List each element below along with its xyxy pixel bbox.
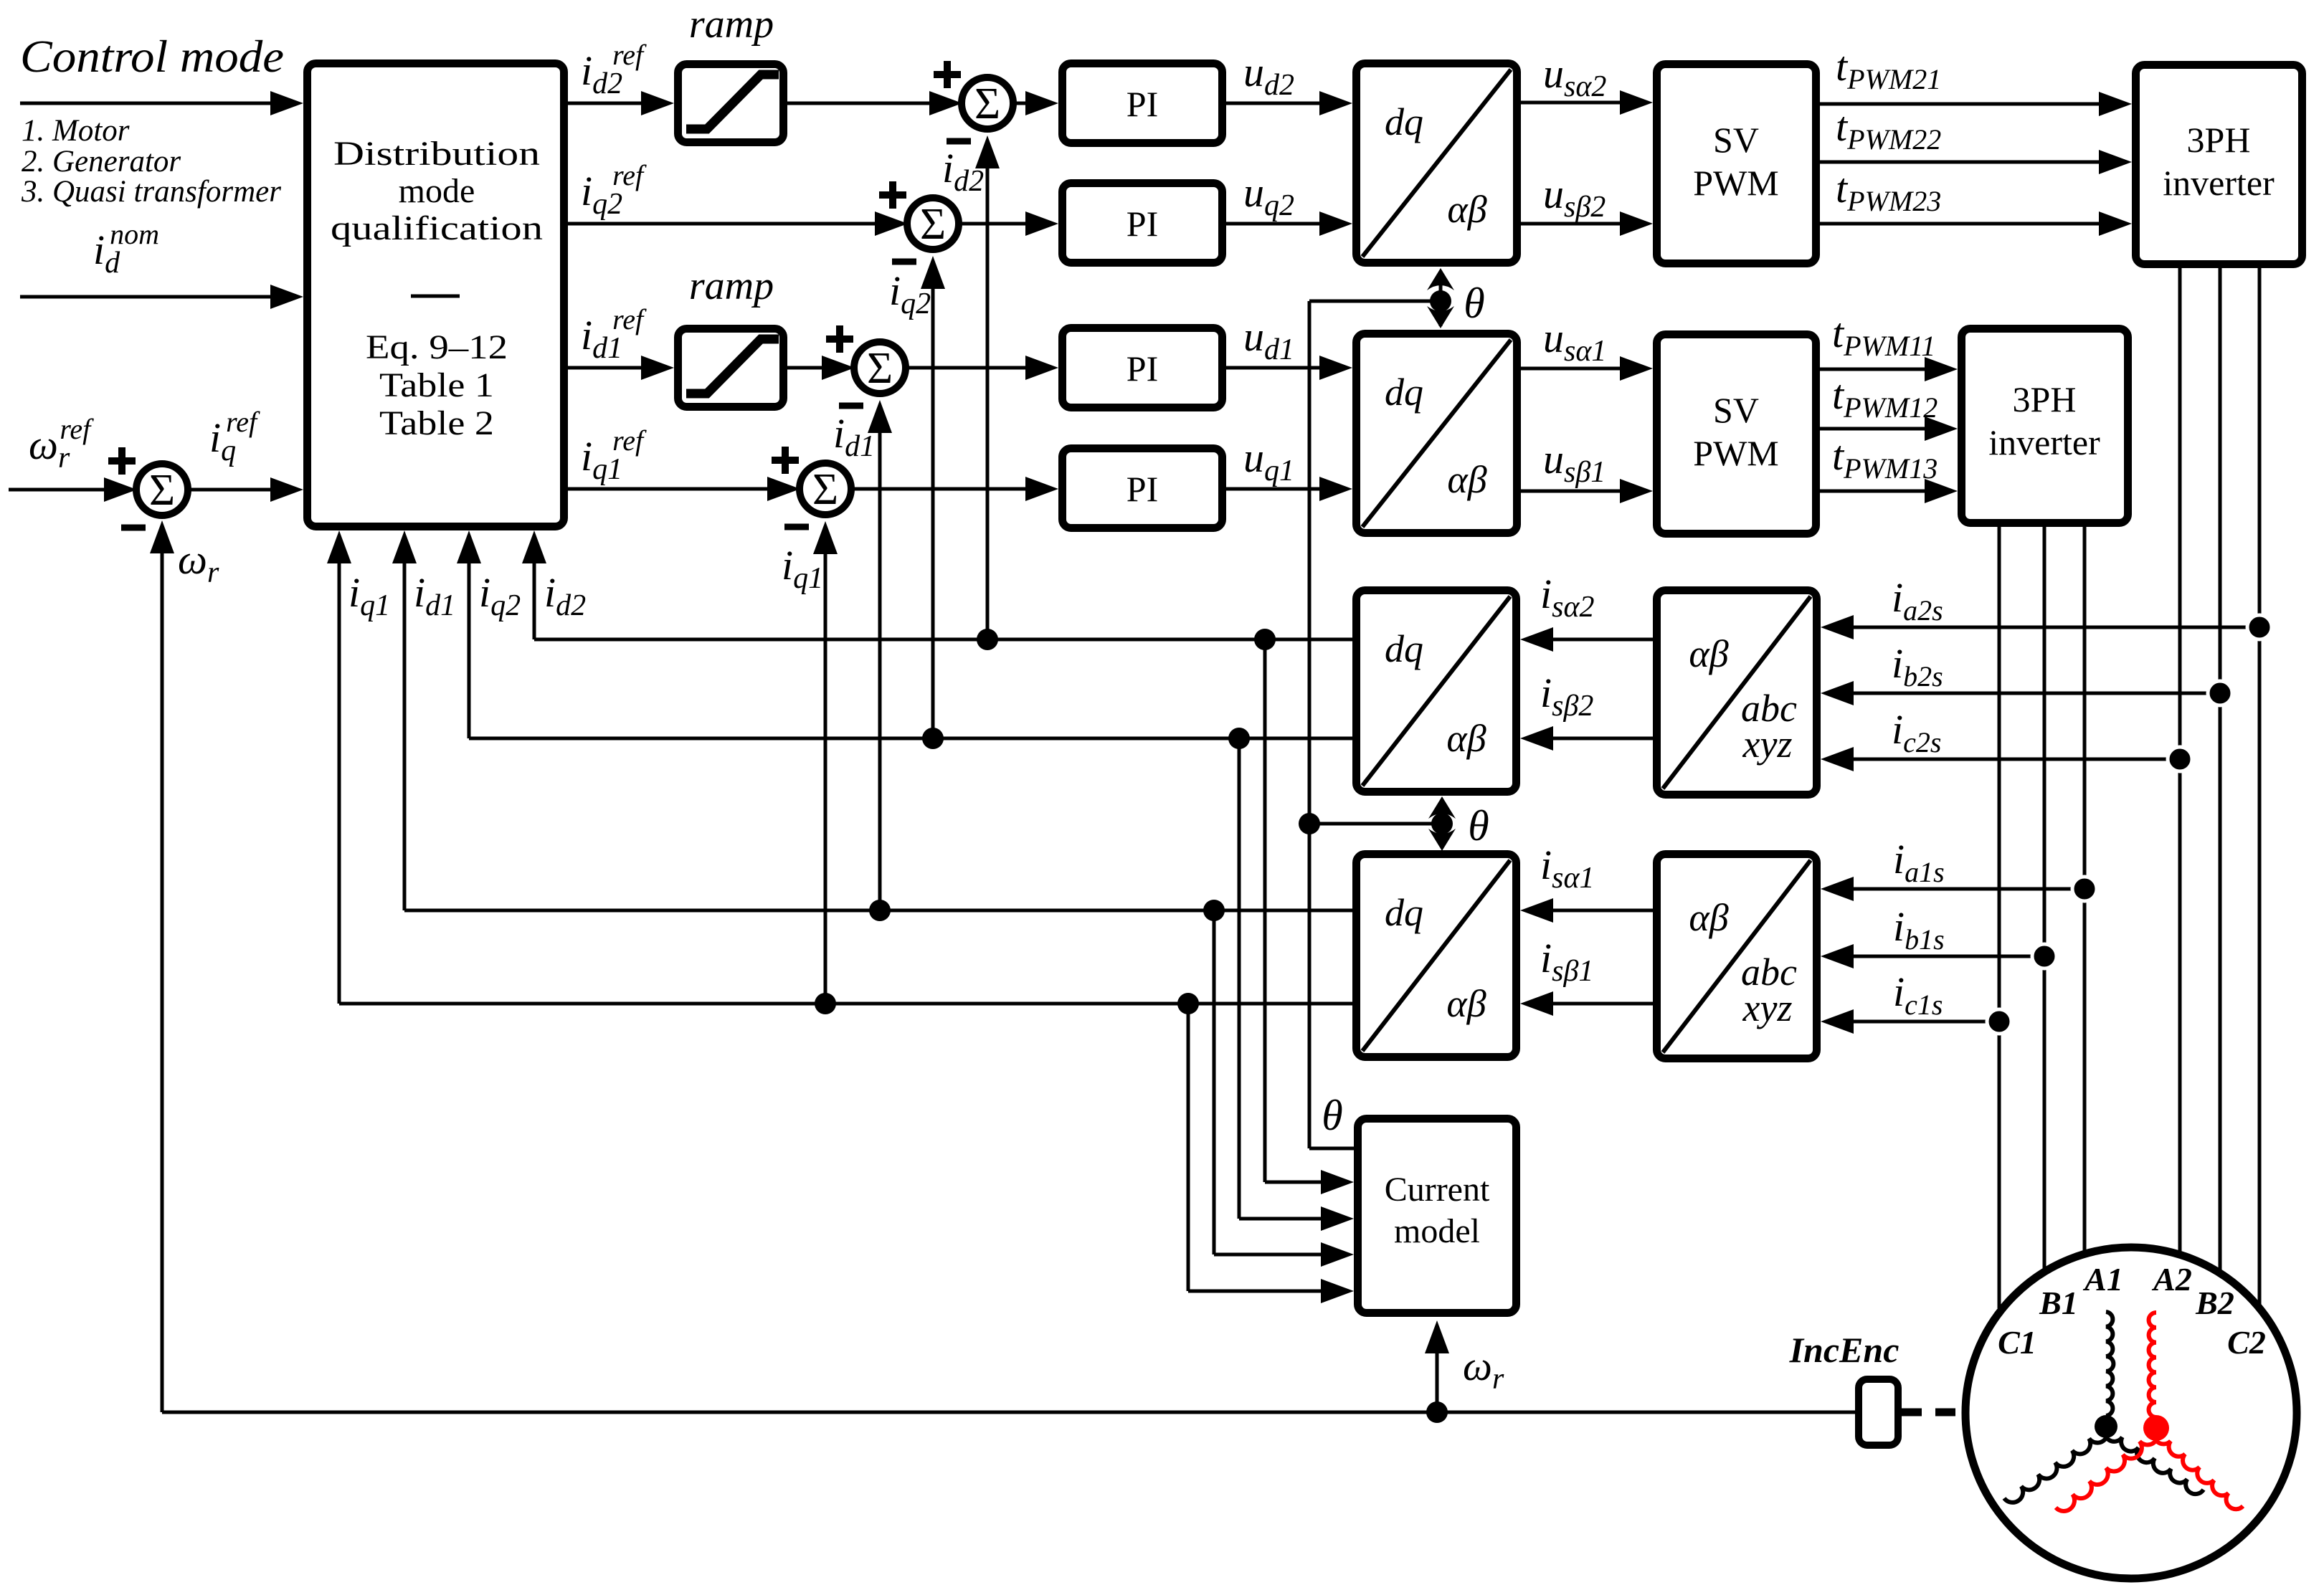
block PI controller 1 xyxy=(1063,64,1223,143)
summing junction d1 xyxy=(826,325,906,406)
wire id2 to sum d2 xyxy=(986,164,990,639)
svg-text:Distribution: Distribution xyxy=(333,135,540,173)
junction iq1 to current model xyxy=(1177,993,1199,1014)
svg-text:B2: B2 xyxy=(2195,1285,2234,1321)
junction theta trunk xyxy=(1299,813,1320,834)
svg-text:A1: A1 xyxy=(2082,1261,2123,1298)
wire ia1s tap xyxy=(1854,887,2085,891)
wire id1 up to distribution xyxy=(403,563,407,910)
svg-text:C1: C1 xyxy=(1998,1324,2036,1361)
wire usa2 xyxy=(1521,101,1624,105)
wire usb1 xyxy=(1521,490,1624,493)
wire ud2 xyxy=(1226,102,1324,105)
wire theta horizontal middle xyxy=(1309,822,1442,826)
motor circle xyxy=(1965,1247,2297,1579)
junction iq2 to sum xyxy=(922,728,944,749)
svg-text:3. Quasi transformer: 3. Quasi transformer xyxy=(21,175,281,209)
wire phase C2 line xyxy=(2258,268,2262,1308)
svg-text:dq: dq xyxy=(1385,891,1423,934)
wire tPWM21 xyxy=(1820,103,2103,106)
summing junction d2 xyxy=(934,61,1013,141)
svg-text:dq: dq xyxy=(1385,100,1423,143)
wire iq1 feedback xyxy=(339,1002,1352,1006)
wire iq1 up to distribution xyxy=(338,563,341,1004)
node theta between voltage transforms xyxy=(1439,276,1443,326)
svg-text:Σ: Σ xyxy=(867,344,893,393)
wire sum q2 to PI2 xyxy=(958,222,1030,226)
junction iq2 to current model xyxy=(1228,728,1250,749)
wire uq1 xyxy=(1226,487,1324,491)
svg-text:θ: θ xyxy=(1464,280,1484,327)
svg-text:PI: PI xyxy=(1127,348,1158,389)
wire sum q1 to PI4 xyxy=(850,487,1030,491)
wire theta horizontal top xyxy=(1309,300,1441,303)
wire id1 to current model xyxy=(1213,910,1216,1254)
block PI controller 2 xyxy=(1063,184,1223,263)
svg-text:C2: C2 xyxy=(2227,1324,2266,1361)
winding set 1 vertical coil xyxy=(2106,1312,2113,1416)
wire sum d1 to PI3 xyxy=(905,366,1030,370)
wire iq1 to current model xyxy=(1187,1004,1190,1291)
winding set 2 right coil xyxy=(2154,1428,2243,1509)
wire id1 to sum d1 xyxy=(878,429,882,910)
block dq to alpha-beta voltage 1 xyxy=(1357,334,1517,533)
wire tPWM22 xyxy=(1820,161,2103,164)
star point 1 xyxy=(2095,1415,2117,1438)
wire iq2 to sum q2 xyxy=(931,285,935,738)
wire uq2 xyxy=(1226,222,1324,226)
block alpha-beta to dq current 2 xyxy=(1357,591,1517,792)
block incremental encoder xyxy=(1859,1379,1898,1445)
svg-text:Σ: Σ xyxy=(149,466,175,515)
svg-text:3PH: 3PH xyxy=(2013,379,2077,419)
wire tPWM23 xyxy=(1820,222,2103,226)
wire iq2 up to distribution xyxy=(468,563,471,738)
block PI controller 3 xyxy=(1063,328,1223,408)
svg-text:SV: SV xyxy=(1713,390,1759,430)
svg-text:Σ: Σ xyxy=(920,200,946,249)
wire iq1ref to sum q1 xyxy=(568,487,772,491)
wire usa1 xyxy=(1521,367,1624,371)
block alpha-beta to dq current 1 xyxy=(1357,854,1517,1057)
svg-text:mode: mode xyxy=(399,172,475,210)
junction id1 to sum xyxy=(869,900,891,921)
svg-text:IncEnc: IncEnc xyxy=(1789,1330,1899,1370)
wire iq ref to distribution xyxy=(187,488,275,492)
junction ib2s xyxy=(2208,681,2232,705)
wire ic1s tap xyxy=(1854,1020,1999,1024)
block ramp limiter 2 xyxy=(678,329,784,407)
svg-text:xyz: xyz xyxy=(1742,986,1793,1029)
junction wr to current model xyxy=(1426,1401,1448,1423)
svg-text:αβ: αβ xyxy=(1446,717,1486,760)
block ramp limiter 1 xyxy=(678,65,784,143)
wire isa1 xyxy=(1549,909,1653,913)
node theta between current transforms xyxy=(1441,801,1444,847)
block Distribution mode qualification xyxy=(308,64,564,527)
svg-text:1. Motor: 1. Motor xyxy=(22,114,130,148)
summing junction q2 xyxy=(879,181,959,262)
wire wr vertical xyxy=(161,553,164,1412)
wire tPWM11 xyxy=(1820,368,1929,371)
svg-text:xyz: xyz xyxy=(1742,723,1793,766)
block Current model xyxy=(1358,1119,1517,1313)
wire id2 up to distribution xyxy=(533,563,536,639)
wire encoder dashed shaft xyxy=(1902,1409,1963,1417)
svg-text:αβ: αβ xyxy=(1446,982,1486,1025)
svg-text:dq: dq xyxy=(1385,627,1423,670)
wire Control mode input xyxy=(20,102,275,105)
block SV PWM 1 xyxy=(1657,335,1816,534)
junction id2 to current model xyxy=(1254,629,1276,650)
wire wr arrow into current model xyxy=(1436,1349,1439,1412)
winding set 1 left coil xyxy=(2004,1427,2107,1503)
wire tPWM13 xyxy=(1820,490,1929,493)
winding set 2 vertical coil xyxy=(2149,1313,2156,1417)
wire iq1 to sum q1 xyxy=(824,550,827,1004)
block SV PWM 2 xyxy=(1657,65,1816,264)
wire ib2s tap xyxy=(1854,692,2220,695)
svg-text:PI: PI xyxy=(1127,204,1158,244)
block 3PH inverter 2 xyxy=(2136,65,2302,265)
wire wr horizontal xyxy=(162,1411,1855,1414)
svg-text:3PH: 3PH xyxy=(2187,120,2251,160)
wire id1 feedback xyxy=(404,909,1352,913)
wire usb2 xyxy=(1521,222,1624,226)
svg-text:SV: SV xyxy=(1713,120,1759,160)
svg-text:PI: PI xyxy=(1127,84,1158,124)
wire ia2s tap xyxy=(1854,626,2259,629)
wire phase B1 line xyxy=(2043,527,2046,1270)
svg-text:PWM: PWM xyxy=(1693,163,1778,203)
svg-text:qualification: qualification xyxy=(331,209,543,247)
summing junction speed xyxy=(108,447,188,528)
wire id1ref to ramp2 xyxy=(568,366,645,370)
block PI controller 4 xyxy=(1063,449,1223,528)
wire isa2 xyxy=(1549,638,1653,642)
wire id2 to current model xyxy=(1263,639,1267,1182)
svg-text:Σ: Σ xyxy=(974,80,1000,128)
wire sum d2 to PI1 xyxy=(1012,102,1030,105)
wire theta vertical trunk xyxy=(1308,301,1312,1148)
junction ia2s xyxy=(2247,615,2272,639)
block abc-xyz to alpha-beta 1 xyxy=(1657,854,1817,1059)
wire id2ref to ramp1 xyxy=(568,102,645,105)
wire phase A1 line xyxy=(2083,527,2087,1253)
wire ramp2 to sum d1 xyxy=(787,366,826,370)
junction ic1s xyxy=(1987,1009,2011,1034)
svg-text:Eq. 9–12: Eq. 9–12 xyxy=(366,328,508,366)
wire ud1 xyxy=(1226,366,1324,370)
wire tPWM12 xyxy=(1820,427,1929,431)
junction ia1s xyxy=(2072,877,2097,901)
svg-text:αβ: αβ xyxy=(1689,632,1728,675)
svg-text:θ: θ xyxy=(1322,1092,1342,1139)
svg-text:Σ: Σ xyxy=(812,465,838,514)
svg-text:Table 1: Table 1 xyxy=(379,366,494,404)
junction ib1s xyxy=(2032,944,2057,968)
winding set 1 right coil xyxy=(2105,1427,2204,1494)
junction id1 to current model xyxy=(1203,900,1225,921)
svg-text:model: model xyxy=(1394,1212,1480,1250)
wire wr ref input xyxy=(9,488,108,492)
junction id2 to sum xyxy=(977,629,998,650)
svg-text:Table 2: Table 2 xyxy=(379,404,494,442)
svg-text:B1: B1 xyxy=(2039,1285,2078,1321)
block dq to alpha-beta voltage 2 xyxy=(1357,64,1517,263)
wire ramp1 to sum d2 xyxy=(787,102,934,105)
summing junction q1 xyxy=(772,447,851,527)
svg-text:αβ: αβ xyxy=(1447,188,1486,231)
svg-text:αβ: αβ xyxy=(1689,896,1728,939)
wire theta into current model xyxy=(1309,1147,1354,1151)
star point 2 xyxy=(2143,1415,2169,1441)
svg-text:PWM: PWM xyxy=(1693,433,1778,473)
svg-text:Current: Current xyxy=(1385,1171,1490,1209)
svg-text:αβ: αβ xyxy=(1447,458,1486,501)
junction ic2s xyxy=(2168,747,2192,771)
wire iq2ref to sum q2 xyxy=(568,222,879,226)
wire ic2s tap xyxy=(1854,758,2180,761)
wire id2 feedback xyxy=(534,638,1352,642)
wire isb1 xyxy=(1549,1002,1653,1006)
wire iq2 to current model xyxy=(1238,738,1241,1219)
svg-text:ramp: ramp xyxy=(689,2,774,47)
svg-text:Control mode: Control mode xyxy=(20,31,284,82)
svg-text:ramp: ramp xyxy=(689,264,774,308)
winding set 2 left coil xyxy=(2056,1428,2158,1511)
wire id nom input xyxy=(20,295,275,299)
svg-text:A2: A2 xyxy=(2151,1261,2192,1298)
junction iq1 to sum xyxy=(815,993,836,1014)
wire isb2 xyxy=(1549,737,1653,741)
svg-text:inverter: inverter xyxy=(1988,422,2100,462)
wire iq2 feedback xyxy=(469,737,1352,741)
svg-text:θ: θ xyxy=(1468,802,1489,849)
svg-text:PI: PI xyxy=(1127,469,1158,509)
svg-text:dq: dq xyxy=(1385,371,1423,414)
wire phase C1 line xyxy=(1998,527,2001,1308)
wire phase B2 line xyxy=(2219,268,2222,1270)
block 3PH inverter 1 xyxy=(1962,329,2128,523)
svg-text:inverter: inverter xyxy=(2163,163,2275,203)
block abc-xyz to alpha-beta 2 xyxy=(1657,591,1817,795)
svg-text:2. Generator: 2. Generator xyxy=(22,145,181,178)
wire ib1s tap xyxy=(1854,955,2044,958)
wire phase A2 line xyxy=(2178,268,2182,1253)
